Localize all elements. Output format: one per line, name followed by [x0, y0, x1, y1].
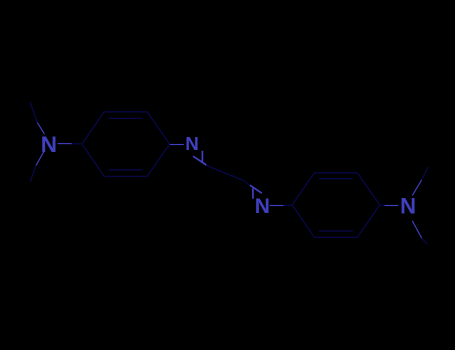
imine C2=N2 dark tail: [245, 182, 250, 186]
bond ring2 to N right blue half: [385, 205, 399, 207]
bond N left to ring1 dark half: [72, 143, 82, 145]
ring1 inner double-bond line bottom: [109, 169, 143, 171]
svg-text:N: N: [185, 133, 199, 154]
ring1 edge TR-R: [147, 112, 170, 145]
ring1 inner double-bond line top: [109, 117, 143, 119]
imine N1=C1 dark tail: [206, 165, 210, 167]
ring1 edge L-TL: [82, 112, 105, 145]
methyl CH3 lower-left blue half: [36, 151, 44, 166]
imine N1=C1 main line: [193, 156, 206, 165]
methyl CH3 lower-left dark half: [30, 166, 36, 183]
svg-text:N: N: [255, 195, 270, 218]
ring2 edge L-TL: [292, 173, 315, 206]
ring1 edge R-BR: [147, 144, 170, 177]
dark carbon-half bond segments: [30, 102, 428, 244]
ring1 edge TL-TR top: [104, 111, 146, 113]
imine C2=N2 second line: [252, 188, 254, 198]
ring2 edge TL-TR top: [315, 172, 358, 174]
methyl CH3 upper-right blue half: [412, 180, 421, 196]
imine C2=N2 main line: [250, 185, 262, 193]
ring2 edge BR-BL bottom: [315, 236, 358, 238]
bond N2 to ring2 dark half: [283, 204, 292, 206]
benzene ring 2 (right): [292, 173, 380, 238]
bond ring1 to N1 all blue: [170, 144, 184, 146]
ring2 inner double-bond line bottom: [319, 230, 353, 232]
methyl CH3 lower-right blue half: [412, 221, 421, 238]
ring1 edge BL-L: [82, 144, 105, 177]
ring1 edge BR-BL bottom: [104, 175, 146, 177]
central single bond C1-C2: [210, 167, 245, 181]
bond N2 to ring2 blue half: [270, 205, 284, 207]
svg-text:N: N: [400, 194, 416, 219]
methyl CH3 upper-left dark half: [30, 102, 37, 123]
methyl CH3 upper-right dark half: [422, 167, 428, 180]
imine N1=C1 second line: [201, 151, 203, 163]
ring2 edge BL-L: [292, 205, 315, 238]
ring2 inner double-bond line top: [319, 178, 353, 180]
benzene ring 1 (left): [82, 112, 170, 177]
bright nitrogen-half bond segments: [36, 123, 422, 239]
methyl CH3 upper-left blue half: [37, 123, 44, 135]
ring2 edge TR-R: [357, 173, 380, 206]
bond ring2 to N right dark half: [380, 204, 385, 207]
bond N left to ring1 blue half: [58, 143, 72, 145]
methyl CH3 lower-right dark half: [422, 238, 427, 244]
ring2 edge R-BR: [357, 205, 380, 238]
svg-text:N: N: [41, 132, 57, 157]
